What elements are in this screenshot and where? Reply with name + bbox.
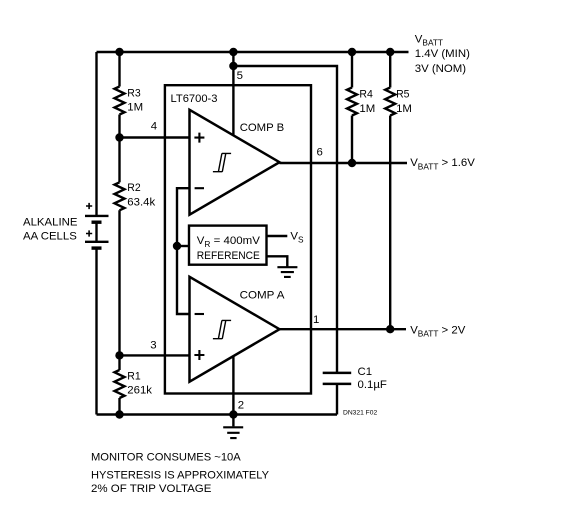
svg-text:1: 1	[313, 314, 319, 326]
op-amp comparator COMP B	[190, 110, 280, 215]
wire VS output	[267, 235, 288, 237]
ground symbol pin 2	[223, 427, 243, 438]
op-amp comparator COMP A	[190, 277, 280, 382]
node pin 2 ground	[229, 410, 237, 418]
wire left rail lower (battery - to ground rail)	[95, 249, 97, 415]
node R1 bottom ground	[115, 410, 123, 418]
node pin 5 bypass junction	[229, 62, 237, 70]
svg-text:AA CELLS: AA CELLS	[23, 230, 77, 242]
minus input COMP B	[195, 187, 204, 189]
wire pin 6 output COMP B	[280, 162, 408, 164]
svg-text:C1: C1	[358, 366, 373, 378]
svg-text:COMP A: COMP A	[240, 289, 285, 301]
wire ground rail	[97, 413, 338, 415]
svg-text:3: 3	[150, 340, 156, 352]
wire pin 5 bypass loop to C1	[233, 66, 337, 373]
ground symbol reference	[277, 267, 297, 277]
svg-text:VS: VS	[290, 231, 304, 245]
svg-text:R4: R4	[359, 89, 372, 101]
resistor R4 1M	[347, 52, 357, 163]
reference box VR 400mV	[189, 226, 267, 265]
node reference to minus bus	[173, 242, 181, 250]
svg-text:VBATT: VBATT	[415, 34, 443, 48]
svg-text:HYSTERESIS IS APPROXIMATELY: HYSTERESIS IS APPROXIMATELY	[91, 470, 269, 482]
svg-text:1M: 1M	[359, 103, 375, 115]
svg-text:1M: 1M	[127, 102, 143, 114]
svg-text:ALKALINE: ALKALINE	[23, 216, 78, 228]
svg-text:2% OF TRIP VOLTAGE: 2% OF TRIP VOLTAGE	[91, 483, 212, 495]
wire pin 1 output COMP A	[280, 328, 407, 330]
svg-text:63.4k: 63.4k	[127, 197, 155, 209]
svg-text:0.1µF: 0.1µF	[358, 379, 387, 391]
wire reference to minus bus	[177, 245, 189, 247]
wire left rail upper (VBATT to battery +)	[95, 52, 97, 215]
capacitor C1 0.1uF	[323, 373, 352, 415]
svg-text:1M: 1M	[396, 103, 412, 115]
svg-text:VBATT > 2V: VBATT > 2V	[410, 325, 466, 339]
svg-text:VBATT > 1.6V: VBATT > 1.6V	[410, 157, 475, 171]
resistor R3 1M	[115, 52, 125, 138]
svg-text:1.4V (MIN): 1.4V (MIN)	[415, 48, 470, 60]
svg-text:R3: R3	[127, 87, 140, 99]
wire pin 4 input	[120, 136, 190, 138]
node R4 top	[348, 48, 356, 56]
svg-text:REFERENCE: REFERENCE	[197, 250, 260, 262]
svg-text:261k: 261k	[127, 385, 152, 397]
wire pin 2 ground	[232, 357, 234, 427]
resistor R1 261k	[115, 355, 125, 414]
wire pin 5 supply	[232, 52, 234, 135]
plus input COMP A	[194, 350, 204, 360]
node pin 3 divider tap	[115, 351, 123, 359]
wire top VBATT rail	[97, 51, 409, 53]
svg-text:LT6700-3: LT6700-3	[171, 93, 218, 105]
wire reference ground	[267, 256, 288, 266]
svg-text:2: 2	[238, 399, 244, 411]
svg-text:6: 6	[317, 147, 323, 159]
svg-text:R2: R2	[127, 182, 140, 194]
hysteresis symbol COMP A	[213, 320, 231, 338]
IC box U1 LT6700-3	[165, 85, 311, 393]
resistor R5 1M	[385, 52, 395, 329]
svg-text:R5: R5	[396, 89, 409, 101]
svg-text:MONITOR CONSUMES ~10A: MONITOR CONSUMES ~10A	[91, 451, 241, 463]
node R5 pin 1 output	[386, 325, 394, 333]
resistor R2 63.4k	[115, 138, 125, 356]
svg-text:VR = 400mV: VR = 400mV	[197, 235, 261, 249]
wire minus bus (COMP B minus to COMP A minus)	[177, 188, 190, 314]
plus input COMP B	[194, 133, 204, 143]
svg-text:R1: R1	[127, 371, 140, 383]
node R5 top	[386, 48, 394, 56]
node pin 5 top	[229, 48, 237, 56]
minus input COMP A	[195, 313, 204, 315]
battery B1 alkaline AA cells	[85, 203, 109, 248]
node pin 4 divider tap	[115, 133, 123, 141]
svg-text:3V (NOM): 3V (NOM)	[415, 63, 466, 75]
node R3 top	[115, 48, 123, 56]
svg-text:COMP B: COMP B	[240, 122, 285, 134]
svg-text:DN321 F02: DN321 F02	[343, 410, 377, 417]
wire pin 3 input	[120, 354, 190, 356]
hysteresis symbol COMP B	[213, 153, 231, 171]
svg-text:4: 4	[151, 121, 157, 133]
node R4 pin 6 output	[348, 159, 356, 167]
svg-text:5: 5	[237, 70, 243, 82]
